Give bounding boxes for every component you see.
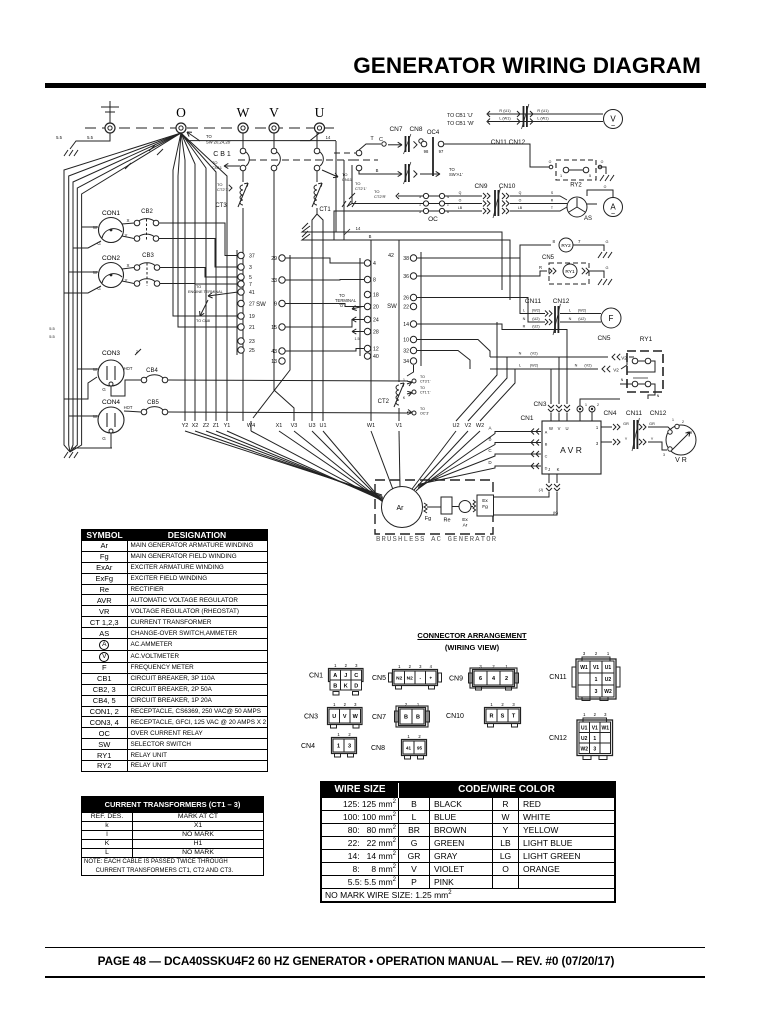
svg-text:CN8: CN8 [371, 745, 385, 752]
arrow TO CN11 [224, 165, 240, 167]
wire W phase down [242, 208, 244, 421]
selector switch SW left body [236, 250, 238, 355]
svg-text:K: K [344, 684, 348, 690]
svg-text:3: 3 [419, 664, 422, 669]
svg-text:2: 2 [595, 651, 598, 656]
svg-text:1: 1 [593, 736, 596, 742]
SW contact 25 [238, 347, 244, 353]
wire SW32 right [417, 351, 470, 370]
svg-text:J: J [548, 467, 550, 472]
wire to F a [520, 258, 545, 314]
svg-text:98: 98 [424, 149, 429, 154]
svg-text:SW: SW [387, 304, 397, 310]
svg-text:2: 2 [345, 663, 348, 668]
SW contact 29 [279, 255, 285, 261]
chevron K [554, 484, 560, 487]
svg-text:36: 36 [403, 274, 409, 280]
wire RY2 ground [598, 167, 606, 174]
wire CB2 to SW37 [159, 223, 238, 256]
wire OC left c [334, 211, 423, 240]
svg-text:V R: V R [675, 457, 687, 464]
svg-text:3: 3 [355, 663, 358, 668]
wire O-fan left 2 [69, 133, 181, 452]
SW contact 14 [410, 321, 416, 327]
wire CT2 bottom [398, 408, 400, 421]
svg-text:X: X [126, 263, 129, 268]
svg-text:38: 38 [403, 256, 409, 262]
symbol table [81, 529, 268, 772]
wire W2 up [480, 369, 515, 421]
node [419, 139, 423, 143]
svg-text:8: 8 [552, 239, 555, 244]
SW contact 13 [279, 358, 285, 364]
wire RY1 loop [627, 361, 655, 372]
wire [579, 412, 581, 421]
svg-text:Ar: Ar [397, 505, 405, 512]
wire V1 vertical [398, 240, 400, 370]
svg-text:G: G [606, 266, 609, 270]
svg-text:(U2): (U2) [532, 325, 540, 329]
svg-text:29: 29 [271, 256, 277, 262]
SW contact 41 [238, 289, 244, 295]
wire SW right bus [420, 252, 422, 366]
wire [638, 360, 646, 362]
svg-text:2: 2 [348, 732, 351, 737]
SW contact 8 [364, 276, 370, 282]
svg-text:(W2): (W2) [578, 309, 587, 313]
wire CB3 to SW5 [160, 268, 238, 278]
wire V meter lower [488, 121, 603, 123]
chevron J [546, 484, 552, 487]
svg-text:Y1: Y1 [224, 423, 231, 429]
breaker CB3 pole 1 [134, 263, 160, 271]
svg-text:1: 1 [607, 651, 610, 656]
wire vertical [335, 141, 337, 232]
svg-text:7: 7 [578, 239, 581, 244]
switch TC [356, 150, 362, 156]
wire CB2 to SW3 [159, 239, 238, 268]
svg-text:V: V [558, 426, 561, 431]
wire W1 vertical [370, 240, 372, 421]
wire [122, 268, 134, 270]
svg-text:32: 32 [403, 349, 409, 355]
connector CN3 [304, 702, 362, 728]
svg-text:24: 24 [373, 318, 379, 324]
footer rule lower [45, 976, 705, 978]
wire fan 5 [227, 431, 384, 501]
svg-text:3: 3 [604, 712, 607, 717]
wire OC to CN9 c [445, 210, 482, 212]
svg-text:18: 18 [373, 293, 379, 299]
wire CON1-W [82, 226, 98, 228]
wire CON2-G [64, 286, 101, 293]
svg-text:(V2): (V2) [584, 364, 592, 368]
SW contact 36 [410, 273, 416, 279]
current transformer CT2 [396, 385, 399, 405]
relay RY1 coil mark [633, 377, 648, 379]
svg-text:G: G [102, 436, 106, 441]
svg-text:W1: W1 [602, 725, 610, 731]
svg-text:CON4: CON4 [102, 399, 120, 406]
svg-text:R (U1): R (U1) [499, 109, 511, 113]
svg-text:2: 2 [501, 702, 504, 707]
relay RY2 contact 1 [563, 167, 569, 173]
receptacle CON3 [98, 350, 124, 386]
svg-text:F: F [609, 314, 614, 323]
svg-text:9: 9 [274, 302, 277, 308]
chevron CN3 2 [556, 405, 562, 408]
connector CN1 row2 [330, 680, 362, 695]
breaker CB1 pole 1 [240, 133, 249, 171]
wire [638, 383, 646, 385]
wire AS top to A [587, 190, 613, 197]
wire [621, 361, 627, 369]
svg-text:7: 7 [249, 282, 252, 288]
svg-text:CN7: CN7 [372, 714, 386, 721]
wire 14 run [302, 226, 502, 290]
svg-text:41: 41 [406, 746, 412, 751]
svg-text:3: 3 [593, 746, 596, 752]
svg-text:33: 33 [271, 278, 277, 284]
wire K [556, 474, 558, 483]
wire to F b [417, 298, 545, 323]
svg-text:K: K [557, 467, 560, 472]
wire OC4 to RY2 [444, 144, 553, 167]
svg-text:CN5: CN5 [542, 255, 555, 261]
svg-text:L (W1): L (W1) [499, 117, 511, 121]
wire AVR pin3 [601, 441, 612, 443]
wire CB4 out [168, 380, 408, 381]
SW contact 5 [238, 274, 244, 280]
svg-text:A V R: A V R [560, 445, 582, 455]
wire V phase down [274, 171, 294, 421]
wire CON4 HOT to CB5 [124, 411, 141, 412]
SW contact 22 [410, 303, 416, 309]
connector CN7 [372, 702, 430, 727]
wire O-fan vertical 2 [181, 133, 195, 421]
svg-text:CB5: CB5 [147, 400, 159, 406]
connector CN1 (row1) [309, 663, 363, 682]
wire CN10 to AS c [510, 207, 567, 211]
SW contact 23 [238, 338, 244, 344]
node [412, 379, 416, 383]
breaker CB1 pole 3 [314, 133, 323, 171]
svg-text:B: B [416, 715, 420, 721]
current transformer CT1 [314, 185, 317, 205]
svg-text:27: 27 [249, 302, 255, 308]
wire B run [302, 234, 510, 300]
wire to VR 3 [648, 442, 667, 450]
svg-text:1: 1 [334, 663, 337, 668]
terminal U [315, 105, 325, 133]
svg-text:~: ~ [611, 123, 615, 130]
wire AVR pin1 [601, 426, 612, 428]
svg-text:5: 5 [589, 174, 591, 178]
svg-text:3: 3 [512, 702, 515, 707]
wire U2 up [456, 322, 497, 421]
svg-text:5.5: 5.5 [87, 135, 93, 140]
svg-text:CN9: CN9 [449, 676, 463, 683]
svg-text:R: R [551, 199, 554, 203]
wire O-fan vertical 4 [181, 133, 216, 421]
svg-text:14: 14 [326, 135, 331, 140]
relay OC contact 2R [439, 201, 444, 206]
wire O-fan left 5 [70, 133, 181, 452]
svg-text:CN10: CN10 [446, 713, 464, 720]
SW contact 21 [238, 324, 244, 330]
svg-text:C: C [354, 673, 358, 679]
svg-text:O: O [601, 160, 604, 164]
node [382, 142, 386, 146]
relay RY1 contact a [632, 358, 638, 364]
wire V meter upper [488, 113, 603, 115]
svg-text:T: T [370, 136, 374, 142]
svg-text:~: ~ [611, 211, 615, 218]
svg-text:CON1: CON1 [102, 210, 120, 217]
SW contact 43 [279, 348, 285, 354]
wire W4 stub [250, 421, 252, 431]
svg-text:U1: U1 [581, 725, 588, 731]
wire fan 9 [312, 431, 386, 505]
svg-text:J: J [344, 673, 347, 679]
wire [429, 210, 440, 212]
wire 33-8 [286, 279, 365, 282]
svg-text:1: 1 [490, 702, 493, 707]
svg-text:4: 4 [373, 261, 376, 267]
svg-text:N2: N2 [396, 676, 402, 682]
svg-text:OC: OC [428, 216, 438, 223]
svg-text:1: 1 [407, 734, 410, 739]
CB2 linkage [146, 219, 148, 241]
SW contact 32 [410, 347, 416, 353]
svg-text:CT3’1’: CT3’1’ [420, 380, 431, 384]
svg-text:V: V [269, 105, 279, 120]
svg-text:HOT: HOT [124, 405, 133, 410]
svg-text:O: O [459, 199, 462, 203]
svg-text:2: 2 [418, 734, 421, 739]
svg-text:12: 12 [373, 347, 379, 353]
svg-text:2: 2 [344, 702, 347, 707]
svg-text:D: D [354, 684, 358, 690]
chevron [530, 111, 533, 117]
relay RY1 [563, 264, 577, 278]
SW contact 4 [364, 260, 370, 266]
terminal O [176, 105, 186, 133]
wire CON1-G [73, 241, 101, 248]
relay RY1 box dashed [549, 263, 589, 284]
svg-text:Q: Q [519, 191, 522, 195]
svg-text:A: A [333, 673, 337, 679]
SW contact 19 [238, 313, 244, 319]
node [598, 165, 602, 169]
svg-text:2: 2 [597, 403, 599, 407]
wire F in a [560, 313, 601, 315]
wire fuse up [580, 399, 620, 406]
arrow to O [187, 132, 200, 141]
connector CN8 [371, 734, 427, 759]
svg-text:34: 34 [403, 359, 409, 365]
wire vertical [351, 165, 353, 203]
wire [452, 506, 459, 508]
svg-text:+: + [429, 677, 432, 682]
svg-text:U1: U1 [319, 423, 326, 429]
svg-text:GR: GR [623, 422, 629, 426]
switch AS (change-over) [567, 197, 587, 217]
rheostat VR [666, 425, 696, 455]
svg-text:BRUSHLESS AC GENERATOR: BRUSHLESS AC GENERATOR [376, 536, 497, 544]
svg-text:3: 3 [583, 651, 586, 656]
relay RY2 contact 5 [583, 167, 589, 173]
SW contact 37 [238, 252, 244, 258]
wire CON4-G [72, 433, 111, 448]
footer rule upper [45, 947, 705, 948]
node [412, 390, 416, 394]
relay OC contact 2L [423, 201, 428, 206]
svg-text:1: 1 [585, 403, 587, 407]
svg-text:41: 41 [249, 290, 255, 296]
svg-text:U: U [315, 105, 325, 120]
svg-text:O: O [519, 199, 522, 203]
breaker CB2 pole 1 [134, 219, 159, 226]
wire N V2 [490, 356, 608, 358]
wire F in b [560, 321, 601, 323]
svg-text:U: U [332, 714, 336, 720]
svg-text:W: W [353, 714, 359, 720]
relay OC4 bar [432, 137, 434, 176]
connector CN12 tabs [583, 756, 591, 760]
wire SW38 to RY2 [417, 245, 551, 258]
node [549, 165, 553, 169]
svg-text:CN11 CN12: CN11 CN12 [491, 139, 526, 146]
svg-text:LB: LB [458, 206, 463, 210]
svg-text:RY2: RY2 [570, 183, 582, 189]
wire [569, 169, 583, 171]
svg-text:TO: TO [420, 386, 425, 390]
svg-text:3: 3 [595, 689, 598, 695]
svg-text:Z1: Z1 [213, 423, 219, 429]
svg-text:1: 1 [337, 732, 340, 737]
wire AVR input A [418, 432, 541, 490]
svg-text:Ar: Ar [463, 523, 468, 529]
svg-text:AS: AS [584, 216, 592, 222]
svg-text:R (U1): R (U1) [537, 109, 549, 113]
svg-text:(W2): (W2) [530, 364, 539, 368]
SW contact 7 [238, 281, 244, 287]
connector CN12 [549, 712, 612, 756]
wire 29-4 [286, 258, 365, 263]
svg-text:TO CB1 ‘W’: TO CB1 ‘W’ [447, 121, 474, 127]
generator dashed box [375, 480, 493, 534]
svg-text:X: X [126, 218, 129, 223]
svg-text:V: V [343, 714, 347, 720]
wire fan 1 [185, 431, 382, 495]
svg-text:Re: Re [443, 518, 450, 524]
connector CN11/CN12 bars [524, 106, 527, 127]
wire SW34 down [407, 365, 414, 376]
svg-text:LB: LB [518, 206, 523, 210]
wire O-fan left 1 [64, 133, 181, 452]
svg-text:B: B [488, 437, 491, 442]
SW contact 38 [410, 255, 416, 261]
svg-text:CT1’1’: CT1’1’ [420, 391, 431, 395]
wire K to ExFg [494, 492, 557, 515]
svg-text:2: 2 [409, 664, 412, 669]
arrow [200, 300, 208, 316]
relay RY2 box [556, 160, 596, 180]
svg-text:SW: SW [256, 302, 266, 308]
SW contact 26 [410, 294, 416, 300]
svg-text:B: B [369, 234, 372, 239]
wire [629, 356, 634, 358]
wire CN3 c up [538, 330, 567, 405]
wire 43-12 [286, 349, 365, 352]
svg-text:D: D [545, 467, 548, 471]
wire CB5 out [168, 412, 408, 413]
wire W2 fan [416, 431, 480, 491]
svg-text:CN3: CN3 [533, 401, 546, 408]
breaker CB2 pole 2 [134, 234, 159, 241]
svg-text:10: 10 [403, 338, 409, 344]
svg-text:13: 13 [271, 359, 277, 365]
svg-text:3: 3 [354, 702, 357, 707]
svg-text:5.5: 5.5 [49, 334, 55, 339]
wire J to ExFg [494, 492, 549, 497]
regulator AVR box [542, 421, 601, 474]
relay OC4 pole b [438, 141, 444, 147]
ground [64, 150, 78, 156]
ground RY1 right [598, 279, 612, 285]
svg-text:W: W [549, 426, 553, 431]
svg-text:B: B [404, 715, 408, 721]
SW contact 3 [238, 264, 244, 270]
arrow [352, 331, 364, 333]
SW contact 28 [364, 328, 370, 334]
svg-text:CN12: CN12 [549, 735, 567, 742]
svg-text:RY1: RY1 [565, 269, 575, 275]
svg-text:5: 5 [249, 275, 252, 281]
svg-text:Y: Y [651, 437, 654, 441]
svg-text:22: 22 [403, 305, 409, 311]
receptacle CON2 [99, 255, 124, 288]
wire CN10 to AS a [510, 196, 567, 200]
svg-text:W2: W2 [604, 689, 612, 695]
svg-text:(V2): (V2) [530, 352, 538, 356]
svg-text:CON3: CON3 [102, 350, 120, 357]
svg-text:TO: TO [420, 407, 425, 411]
svg-text:CN4: CN4 [603, 410, 616, 417]
connector CN11 [549, 651, 616, 699]
wire RY1 to ground [589, 271, 604, 278]
wire RY1 down [648, 384, 655, 399]
wire to RY1 [417, 271, 547, 276]
svg-text:40: 40 [373, 354, 379, 360]
relay RY1 contact b [645, 358, 651, 364]
svg-text:43: 43 [271, 349, 277, 355]
svg-text:C: C [488, 448, 492, 453]
arrow [394, 173, 402, 175]
wire V2 fan [414, 431, 468, 490]
svg-text:5.5: 5.5 [56, 135, 62, 140]
svg-text:Ex: Ex [462, 517, 468, 523]
svg-text:S: S [551, 191, 554, 195]
svg-text:K: K [403, 396, 406, 400]
svg-text:CN4: CN4 [301, 743, 315, 750]
svg-text:1: 1 [403, 378, 405, 382]
svg-text:V1: V1 [396, 423, 403, 429]
wire fan 12 [399, 431, 400, 488]
svg-text:CT2’R’: CT2’R’ [374, 194, 386, 199]
wire U phase down a [312, 214, 317, 421]
